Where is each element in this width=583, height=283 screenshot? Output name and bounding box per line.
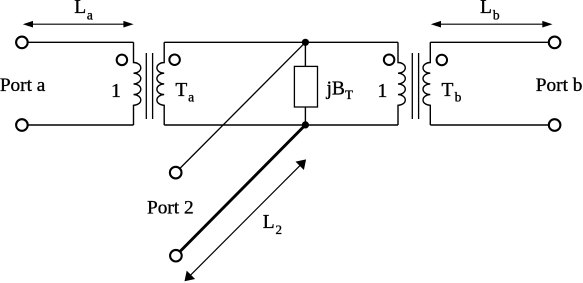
wire top node to susceptance xyxy=(304,42,306,66)
wire port b top xyxy=(430,41,549,43)
wire port a top xyxy=(28,41,134,43)
dimension arrow L2 xyxy=(186,161,305,280)
wire port a bottom xyxy=(28,124,134,126)
transformer Ta polarity dot primary xyxy=(117,55,128,66)
port b upper terminal xyxy=(549,37,561,49)
port a lower terminal xyxy=(16,119,28,131)
susceptance jBT xyxy=(294,66,317,107)
svg-text:Port b: Port b xyxy=(536,75,583,96)
transformer Tb primary winding 1 xyxy=(398,42,405,125)
wire middle loop top xyxy=(164,41,398,43)
dimension arrow La xyxy=(25,23,132,25)
dimension arrow Lb xyxy=(433,23,551,25)
wire susceptance to bottom node xyxy=(304,107,306,125)
port b lower terminal xyxy=(549,119,561,131)
transformer Ta polarity dot secondary xyxy=(169,54,180,64)
port 2 upper terminal xyxy=(170,167,182,179)
transformer Tb polarity dot secondary xyxy=(437,55,448,66)
svg-text:1: 1 xyxy=(111,80,121,102)
transformer Ta secondary winding xyxy=(157,42,164,125)
svg-text:Port a: Port a xyxy=(0,75,46,96)
transformer Tb core xyxy=(411,53,413,119)
node top junction xyxy=(302,39,309,46)
node bottom junction xyxy=(302,121,309,128)
wire port 2 lower diagonal bold xyxy=(180,125,305,252)
transformer Tb secondary winding xyxy=(423,42,430,125)
svg-text:1: 1 xyxy=(377,80,387,102)
wire port b bottom xyxy=(430,124,549,126)
svg-text:Port 2: Port 2 xyxy=(147,197,194,218)
transformer Tb polarity dot primary xyxy=(384,54,395,64)
port a upper terminal xyxy=(16,37,28,49)
port 2 lower terminal xyxy=(170,250,182,262)
transformer Ta core xyxy=(145,53,147,119)
wire port 2 upper diagonal xyxy=(180,42,306,168)
transformer Ta primary winding 1 xyxy=(134,42,141,125)
wire middle loop bottom xyxy=(164,124,398,126)
